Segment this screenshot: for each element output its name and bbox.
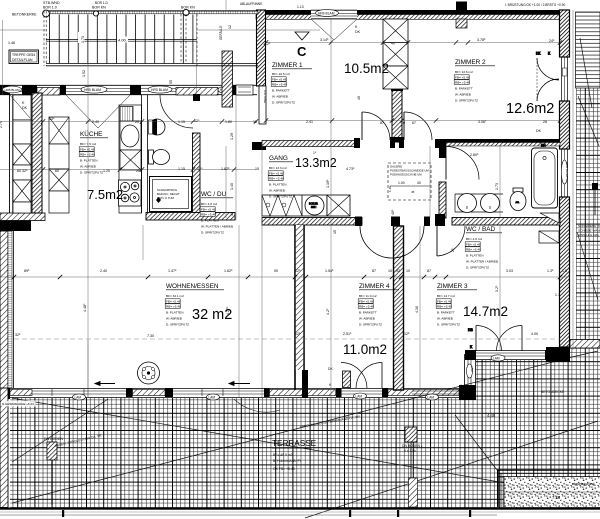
svg-text:B: PARKETT: B: PARKETT [437, 310, 455, 314]
svg-text:10: 10 [401, 121, 405, 125]
south window glazing lines [32, 389, 459, 396]
chimney stack between Zimmer1 and Zimmer2 [383, 19, 408, 89]
svg-text:16: 16 [230, 212, 234, 216]
svg-text:FB= +5.46: FB= +5.46 [269, 171, 284, 175]
svg-text:14.7m2: 14.7m2 [463, 304, 508, 319]
svg-text:40: 40 [417, 181, 421, 185]
svg-text:W: PLATTEN / ABRIEB: W: PLATTEN / ABRIEB [201, 224, 233, 228]
svg-text:B: Holzrost/o.B: Pl: B: Holzrost/o.B: Pl [273, 459, 301, 463]
svg-text:D: SPRITZPUTZ: D: SPRITZPUTZ [359, 322, 382, 326]
svg-text:TREPPE GE54: TREPPE GE54 [12, 53, 35, 57]
svg-text:RB= +5.46: RB= +5.46 [466, 247, 481, 251]
svg-text:15: 15 [333, 230, 337, 234]
svg-text:W: ABRIEB: W: ABRIEB [455, 92, 471, 96]
svg-text:7.40: 7.40 [552, 495, 561, 500]
svg-text:C: C [297, 44, 307, 59]
south window LAM label ovals [73, 393, 439, 400]
svg-text:12⁵: 12⁵ [404, 332, 410, 336]
svg-text:10: 10 [388, 269, 392, 273]
svg-text:B: PARKETT: B: PARKETT [455, 86, 473, 90]
svg-text:DK: DK [355, 30, 361, 34]
svg-text:WC / DU: WC / DU [201, 191, 227, 198]
svg-text:B: PARKETT: B: PARKETT [272, 88, 290, 92]
svg-text:10: 10 [406, 269, 410, 273]
southeast step window (vertical) [460, 354, 476, 388]
svg-text:1.73: 1.73 [495, 183, 499, 190]
svg-text:ABLAUFRINNE: ABLAUFRINNE [240, 2, 262, 6]
west wall of Zimmer 1 [252, 10, 267, 150]
svg-text:FB= +5.46: FB= +5.46 [466, 242, 481, 246]
terrace swing arc of living room door [234, 399, 280, 412]
living room round stove fixture [138, 362, 160, 384]
svg-text:HFB BLAM: HFB BLAM [565, 162, 569, 178]
small note at terrace west edge [2, 401, 36, 407]
stair mid rail [46, 40, 197, 42]
svg-text:12⁵: 12⁵ [295, 269, 301, 273]
svg-text:BOR 1.0: BOR 1.0 [43, 6, 57, 10]
bottom edge double lines and posts [0, 514, 497, 516]
drain channel hatched post [409, 478, 418, 507]
svg-text:GANG: GANG [269, 155, 288, 162]
hall south wall jambs at Zimmer4 door [355, 214, 445, 226]
svg-text:DK: DK [328, 367, 333, 371]
svg-text:DK: DK [22, 106, 28, 110]
svg-text:DETAILPLAN: DETAILPLAN [12, 58, 33, 62]
svg-text:BOR KN: BOR KN [181, 6, 195, 10]
WC/DU east wall [193, 133, 201, 215]
svg-text:FB= +5.46: FB= +5.46 [201, 207, 216, 211]
svg-text:4.30: 4.30 [415, 306, 419, 313]
svg-text:D: SPRITZPUTZ: D: SPRITZPUTZ [272, 100, 295, 104]
stair bottom edge [46, 64, 258, 66]
svg-text:D: SPRITZPUTZ: D: SPRITZPUTZ [269, 194, 292, 198]
svg-text:W: ABRIEB: W: ABRIEB [359, 316, 375, 320]
extra dimension verticals [143, 225, 262, 398]
stair newel posts [43, 10, 189, 17]
svg-text:87: 87 [427, 269, 431, 273]
north wall left strip with windows [0, 85, 257, 101]
kitchen west wall [32, 93, 42, 213]
svg-text:W: ABRIEB: W: ABRIEB [272, 94, 288, 98]
room label Kueche [79, 130, 108, 174]
svg-text:B: PLATTEN: B: PLATTEN [80, 158, 97, 162]
svg-text:D: SPRITZPUTZ: D: SPRITZPUTZ [166, 322, 189, 326]
svg-text:RB= +5.46: RB= +5.46 [437, 304, 452, 308]
svg-text:LAM: LAM [428, 395, 435, 399]
svg-text:B: PLATTEN: B: PLATTEN [166, 310, 183, 314]
svg-text:EINS.LFG.MAL 80: EINS.LFG.MAL 80 [578, 233, 600, 237]
svg-text:55: 55 [169, 80, 173, 84]
bathroom door arc [446, 147, 479, 180]
svg-text:D: SPRITZPUTZ: D: SPRITZPUTZ [80, 170, 103, 174]
svg-text:RB= +5.46: RB= +5.46 [166, 304, 181, 308]
room label WC/DU [200, 191, 233, 234]
svg-text:SCHIEBE WAND: SCHIEBE WAND [578, 229, 600, 233]
east strip dark mark [592, 183, 598, 190]
main entrance door semicircle (hall) [360, 226, 465, 258]
Zimmer2 entry door [404, 112, 432, 140]
room label Wohnen/Essen [165, 283, 224, 326]
kitchen east wall (thin) [142, 95, 148, 213]
stair flight treads [50, 15, 193, 64]
column through top wall [456, 2, 467, 29]
wall Zimmer4/Zimmer3 [394, 226, 404, 390]
room label WC/BAD [465, 226, 502, 269]
svg-text:ZIMMER 1: ZIMMER 1 [272, 62, 303, 69]
WC/DU toilet [149, 150, 170, 165]
svg-text:2.40: 2.40 [92, 120, 99, 124]
terrace bottom edge line [0, 508, 600, 510]
svg-text:WC / BAD: WC / BAD [466, 226, 495, 233]
svg-text:15: 15 [253, 120, 257, 124]
stair left boundary dashed [44, 11, 197, 66]
Zimmer3 north wall (below bath) [452, 218, 560, 226]
svg-text:FB= +5.46: FB= +5.46 [272, 77, 287, 81]
southwest corner step of kitchen block [0, 213, 45, 231]
svg-text:B: PLATTEN: B: PLATTEN [466, 253, 483, 257]
svg-text:20: 20 [135, 120, 139, 124]
svg-text:87: 87 [372, 269, 376, 273]
svg-text:LAM: LAM [470, 366, 474, 372]
svg-text:25: 25 [451, 248, 455, 252]
svg-text:RB= +5.46: RB= +5.46 [455, 80, 470, 84]
svg-text:1.00: 1.00 [398, 181, 405, 185]
WC/DU south wall [146, 213, 235, 221]
room label Zimmer 2 [454, 59, 495, 102]
svg-text:D: SPRITZPUTZ: D: SPRITZPUTZ [466, 265, 489, 269]
hall north wall segments (y134-142) [262, 137, 560, 148]
svg-text:BF= 4.8 m2: BF= 4.8 m2 [466, 237, 482, 241]
svg-text:4.48: 4.48 [487, 413, 496, 418]
svg-text:1.19⁵: 1.19⁵ [326, 179, 330, 188]
svg-text:B: PARKETT: B: PARKETT [359, 310, 377, 314]
kitchen north window tilt lines [10, 19, 357, 128]
svg-text:3.06⁷: 3.06⁷ [478, 120, 487, 124]
svg-text:ZIMMER 2: ZIMMER 2 [455, 59, 486, 66]
svg-text:FB= +5.46: FB= +5.46 [437, 299, 452, 303]
svg-text:einweisgsbünd: einweisgsbünd [572, 482, 595, 486]
dimension tick arrows row y277 [12, 275, 562, 279]
svg-text:1.40: 1.40 [230, 183, 234, 190]
svg-text:I. BRÜSTUNG:OK +1.00 / 2.BRSTG: I. BRÜSTUNG:OK +1.00 / 2.BRSTG +0.90 [505, 3, 565, 7]
stair labels [12, 1, 195, 43]
svg-text:1.54⁵: 1.54⁵ [325, 269, 334, 273]
room label Gang [268, 155, 293, 198]
wall hall/bathroom [435, 146, 446, 226]
small dimension texts horizontal [8, 25, 566, 234]
svg-text:OK FB= +5.44: OK FB= +5.44 [273, 467, 295, 471]
window label ovals HFB BLAM (north) [3, 86, 233, 93]
svg-text:B: PLATTEN: B: PLATTEN [269, 182, 286, 186]
floor drain DN BODEN left [44, 437, 63, 505]
svg-text:40: 40 [391, 42, 395, 46]
svg-text:15: 15 [255, 167, 259, 171]
TREPPE detail-plan box [9, 50, 39, 64]
svg-text:1.13: 1.13 [297, 5, 304, 9]
room label Zimmer 1 [271, 62, 312, 104]
svg-text:32⁵: 32⁵ [15, 333, 21, 337]
svg-text:RB= +5.46: RB= +5.46 [201, 212, 216, 216]
svg-text:60: 60 [55, 169, 59, 173]
svg-text:40: 40 [357, 96, 361, 100]
svg-text:DN BODEN L: DN BODEN L [402, 444, 423, 448]
svg-text:LAM: LAM [493, 356, 500, 360]
shower tray [150, 177, 192, 212]
room label Zimmer 4 [358, 283, 399, 326]
svg-text:92: 92 [396, 269, 400, 273]
kitchen counter east: drainboard, sink, cabinet, stove [119, 105, 142, 213]
staircase top rail [46, 11, 258, 14]
svg-text:N.GESIMSHOHE +5.44: N.GESIMSHOHE +5.44 [2, 402, 34, 406]
svg-text:28: 28 [543, 120, 547, 124]
svg-text:LAM: LAM [75, 395, 82, 399]
kitchen tall cabinets column [49, 117, 69, 213]
Zimmer1 entry door [362, 112, 390, 140]
svg-text:1.52: 1.52 [82, 70, 86, 77]
svg-text:BF= 10.5 m2: BF= 10.5 m2 [272, 72, 290, 76]
dimension texts row y272 [24, 269, 567, 273]
svg-text:FB= +5.46: FB= +5.46 [166, 299, 181, 303]
svg-text:7.5m2: 7.5m2 [87, 187, 123, 202]
bathroom toilet [510, 188, 526, 211]
svg-text:W: ABRIEB: W: ABRIEB [437, 316, 453, 320]
svg-text:1.47⁵: 1.47⁵ [168, 269, 177, 273]
bathroom double washbasins [455, 194, 503, 213]
dimension texts row y336 and verticals [15, 248, 538, 338]
duct/chimney block at corridor corner [222, 51, 233, 107]
svg-text:40⁵: 40⁵ [391, 209, 395, 215]
svg-text:12⁵: 12⁵ [295, 332, 301, 336]
svg-text:13⁵: 13⁵ [49, 117, 55, 121]
svg-text:DB: DB [468, 328, 473, 332]
svg-text:ZIMMER 4: ZIMMER 4 [359, 283, 390, 290]
svg-text:BF= 12.6 m2: BF= 12.6 m2 [455, 70, 473, 74]
east wall window bathroom [561, 149, 569, 197]
svg-text:1.62⁵: 1.62⁵ [224, 269, 233, 273]
svg-text:67: 67 [412, 121, 416, 125]
svg-text:89⁵: 89⁵ [24, 269, 30, 273]
svg-text:SONNWEND TOR: SONNWEND TOR [578, 224, 600, 228]
svg-text:4.2⁵: 4.2⁵ [326, 308, 330, 315]
svg-text:PODANGESSCH NB UM: PODANGESSCH NB UM [390, 173, 422, 177]
window lines north-left windows [10, 89, 232, 92]
svg-text:7.30: 7.30 [147, 334, 154, 338]
south wall of living room with windows/doors [0, 385, 476, 400]
svg-text:BF= 48.9 m2: BF= 48.9 m2 [273, 453, 293, 457]
svg-text:2.75: 2.75 [0, 121, 3, 128]
svg-text:2.41: 2.41 [306, 120, 313, 124]
Zimmer3 south window band [465, 350, 552, 361]
svg-text:1.46: 1.46 [8, 41, 15, 45]
svg-text:1.40: 1.40 [388, 186, 392, 192]
svg-text:W: PLATTEN / ABRIEB: W: PLATTEN / ABRIEB [466, 259, 498, 263]
svg-text:WOHNEN/ESSEN: WOHNEN/ESSEN [166, 283, 219, 290]
svg-text:LAM: LAM [356, 394, 363, 398]
east wall window Zimmer 2 [562, 57, 568, 101]
svg-text:45: 45 [411, 190, 415, 194]
room label Zimmer 3 [436, 283, 477, 326]
svg-text:87: 87 [380, 121, 384, 125]
svg-text:LAM: LAM [209, 395, 216, 399]
svg-text:1.5: 1.5 [562, 269, 567, 273]
svg-text:4 x 1.5k: 4 x 1.5k [404, 449, 416, 453]
svg-text:HFB BLAM: HFB BLAM [151, 88, 168, 92]
svg-text:4.27⁵: 4.27⁵ [226, 306, 230, 315]
svg-text:3.78⁵: 3.78⁵ [477, 38, 486, 42]
svg-text:FB= +5.46: FB= +5.46 [359, 299, 374, 303]
hall wardrobe with boiler [262, 195, 350, 216]
svg-text:24⁵: 24⁵ [549, 39, 555, 43]
svg-text:1.15: 1.15 [178, 120, 185, 124]
svg-text:3.03: 3.03 [506, 269, 513, 273]
svg-text:10.5m2: 10.5m2 [344, 61, 389, 76]
svg-text:DH: DH [541, 144, 546, 148]
svg-text:GEFÄLLE: GEFÄLLE [219, 26, 223, 40]
west exterior wall [0, 231, 14, 508]
wall living/Zimmer4 [295, 225, 308, 398]
Zimmer3 terrace french doors [468, 326, 522, 352]
WC/DU washbasin [149, 119, 166, 135]
rotated terrace annotation texts [54, 293, 565, 448]
bathtub [532, 144, 558, 209]
WC/DU entry door arc [160, 95, 193, 128]
svg-text:12: 12 [228, 25, 232, 29]
east exterior wall [546, 10, 570, 362]
svg-text:D: SPRITZPUTZ: D: SPRITZPUTZ [437, 322, 460, 326]
stove with 4 burner circles [119, 180, 142, 206]
svg-text:4.48⁵: 4.48⁵ [83, 303, 87, 312]
svg-text:HFB BLAM: HFB BLAM [318, 11, 335, 15]
svg-text:1.80: 1.80 [225, 120, 232, 124]
svg-text:12⁰: 12⁰ [197, 167, 203, 171]
svg-text:2.51⁵: 2.51⁵ [343, 332, 352, 336]
svg-text:BF= 4.8 m2: BF= 4.8 m2 [201, 202, 217, 206]
svg-text:13.3m2: 13.3m2 [295, 156, 337, 170]
svg-text:1.73: 1.73 [81, 36, 85, 43]
bathroom/Zimmer3 door pieces (trapezoids) [539, 213, 559, 243]
svg-text:BOR KN: BOR KN [92, 6, 106, 10]
svg-text:RB= +5.46: RB= +5.46 [272, 82, 287, 86]
svg-text:2.80⁵: 2.80⁵ [470, 153, 479, 157]
svg-text:DK: DK [536, 129, 542, 133]
svg-text:4.00: 4.00 [118, 38, 127, 43]
top left annotations [0, 1, 304, 128]
svg-text:DN BODEN: DN BODEN [44, 437, 63, 441]
svg-text:ZIMMER 3: ZIMMER 3 [437, 283, 468, 290]
svg-text:FB= +5.46: FB= +5.46 [455, 75, 470, 79]
svg-text:D: SPRITZPUTZ: D: SPRITZPUTZ [201, 230, 224, 234]
sliding door note (right edge) [578, 224, 600, 237]
section marker C top [295, 32, 309, 59]
svg-text:B: PLATTEN: B: PLATTEN [201, 218, 218, 222]
svg-text:4.73⁵: 4.73⁵ [346, 167, 355, 171]
svg-text:BETONDECKE: BETONDECKE [541, 390, 565, 394]
svg-text:1.29: 1.29 [230, 133, 234, 140]
svg-text:3.2⁵: 3.2⁵ [495, 285, 499, 292]
svg-text:RB= +5.46: RB= +5.46 [80, 152, 95, 156]
east strip extra diagonal [577, 232, 598, 300]
svg-text:1.82⁵: 1.82⁵ [221, 167, 230, 171]
Zimmer2 east french doors [536, 52, 559, 102]
sliding direction arrows [95, 382, 250, 386]
svg-text:BF= 13.3 m2: BF= 13.3 m2 [269, 166, 287, 170]
svg-text:12.6m2: 12.6m2 [506, 101, 554, 117]
svg-text:W: ABRIEB: W: ABRIEB [166, 316, 182, 320]
svg-text:BF= 11.0 m2: BF= 11.0 m2 [359, 294, 377, 298]
svg-text:BETONKERKE: BETONKERKE [12, 13, 37, 17]
dimension tick slashes rows [41, 40, 562, 171]
svg-text:BF= 32.1 m2: BF= 32.1 m2 [166, 294, 184, 298]
wall Zimmer1/Zimmer2 lower part [391, 86, 403, 142]
svg-text:1.15: 1.15 [178, 167, 185, 171]
svg-text:60 32⁵: 60 32⁵ [17, 169, 28, 173]
svg-text:BF= 14.7 m2: BF= 14.7 m2 [437, 294, 455, 298]
north strip west edge lines above kitchen [10, 95, 13, 213]
lower terrace slab (stippled concrete) bottom-right [497, 470, 600, 507]
svg-text:STB.WND: STB.WND [43, 1, 60, 5]
svg-text:11.0m2: 11.0m2 [343, 342, 387, 357]
dimension grid thin lines [0, 0, 573, 398]
svg-text:90: 90 [274, 269, 278, 273]
left wardrobe strip cells [13, 95, 31, 213]
room label TERRASSE [272, 439, 317, 471]
Zimmer4 terrace door: leaf and swing arcs [328, 363, 382, 389]
east parapet hatched band [570, 340, 600, 349]
svg-text:BOR 1.D: BOR 1.D [95, 1, 108, 5]
galerie dashed note box [388, 163, 431, 200]
svg-text:KÜCHE: KÜCHE [80, 130, 102, 138]
svg-text:3.14⁵: 3.14⁵ [320, 38, 329, 42]
svg-text:1.20: 1.20 [103, 169, 110, 173]
svg-text:1.3⁵: 1.3⁵ [547, 269, 554, 273]
hall south wall west segment [262, 218, 362, 226]
svg-text:300 l: 300 l [311, 206, 317, 209]
svg-text:W: ABRIEB: W: ABRIEB [269, 188, 285, 192]
svg-text:2.40: 2.40 [100, 269, 107, 273]
svg-text:FB= +5.46: FB= +5.46 [80, 147, 95, 151]
floor drain DN BODEN center-right [402, 427, 423, 505]
svg-text:D: SPRITZPUTZ: D: SPRITZPUTZ [455, 98, 478, 102]
svg-text:RB= +5.46: RB= +5.46 [359, 304, 374, 308]
svg-text:LÜFTUNG: LÜFTUNG [263, 90, 267, 103]
svg-text:20: 20 [136, 169, 140, 173]
svg-text:HFB BLAM: HFB BLAM [5, 88, 21, 92]
svg-text:4.00: 4.00 [531, 332, 538, 336]
svg-text:TERRASSE: TERRASSE [272, 439, 317, 448]
svg-text:RB= +5.46: RB= +5.46 [269, 176, 284, 180]
svg-text:HFB BLAM: HFB BLAM [84, 88, 101, 92]
north exterior wall upper (Zimmer 1/2) [256, 10, 561, 20]
